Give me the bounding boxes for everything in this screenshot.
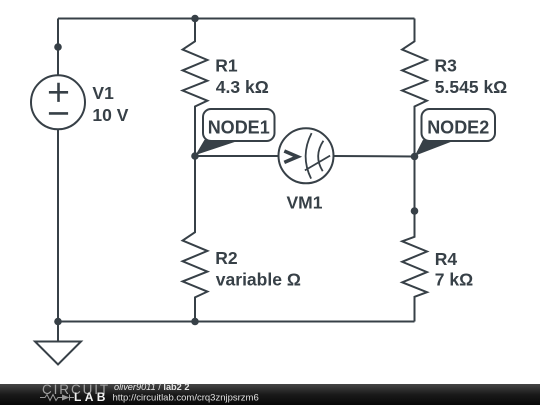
wire VM1 left	[195, 155, 278, 157]
ground	[35, 342, 81, 365]
wire top-left	[58, 18, 195, 20]
svg-text:LAB: LAB	[74, 390, 109, 404]
junction dot NODE1	[191, 152, 199, 160]
svg-text:VM1: VM1	[287, 193, 323, 213]
svg-text:http://circuitlab.com/crq3znjp: http://circuitlab.com/crq3znjpsrzm6	[113, 392, 259, 403]
svg-text:oliver9011 / lab2 2: oliver9011 / lab2 2	[114, 382, 189, 392]
wire top-right	[195, 18, 415, 20]
svg-text:NODE2: NODE2	[427, 118, 489, 138]
wire ground lead	[57, 322, 59, 342]
svg-text:R3: R3	[435, 55, 458, 75]
voltage source V1	[31, 75, 85, 129]
junction dot R2 bottom	[191, 318, 199, 326]
svg-text:R1: R1	[215, 55, 238, 75]
svg-text:7 kΩ: 7 kΩ	[435, 269, 473, 289]
junction dot top R1	[191, 15, 199, 23]
svg-text:V1: V1	[92, 83, 114, 103]
svg-text:5.545 kΩ: 5.545 kΩ	[435, 77, 507, 97]
resistor R1	[183, 19, 208, 157]
junction dot ground	[54, 318, 62, 326]
wire bottom	[58, 321, 415, 323]
junction dot NODE2	[411, 153, 419, 161]
wire VM1 right	[334, 155, 415, 158]
svg-text:4.3 kΩ: 4.3 kΩ	[216, 77, 269, 97]
footer logo squiggle	[40, 395, 74, 401]
svg-text:R2: R2	[215, 248, 238, 268]
resistor R3	[402, 19, 427, 157]
node callout NODE2 box	[422, 109, 496, 141]
voltmeter VM1	[279, 128, 334, 183]
wire V1 bottom lead	[57, 130, 59, 322]
svg-text:variable Ω: variable Ω	[216, 269, 301, 289]
wire NODE2 to R4	[414, 157, 416, 212]
resistor R2	[183, 156, 208, 322]
svg-text:R4: R4	[435, 249, 458, 269]
footer bar	[0, 384, 540, 405]
svg-text:10 V: 10 V	[92, 105, 128, 125]
junction dot R4 top	[411, 207, 419, 215]
svg-text:NODE1: NODE1	[208, 118, 270, 138]
node callout NODE1 box	[203, 109, 275, 141]
junction dot V1 top	[54, 43, 62, 51]
callout tail NODE2	[415, 140, 454, 156]
resistor R4	[402, 211, 427, 322]
wire V1 top lead	[57, 19, 59, 76]
callout tail NODE1	[196, 140, 239, 155]
